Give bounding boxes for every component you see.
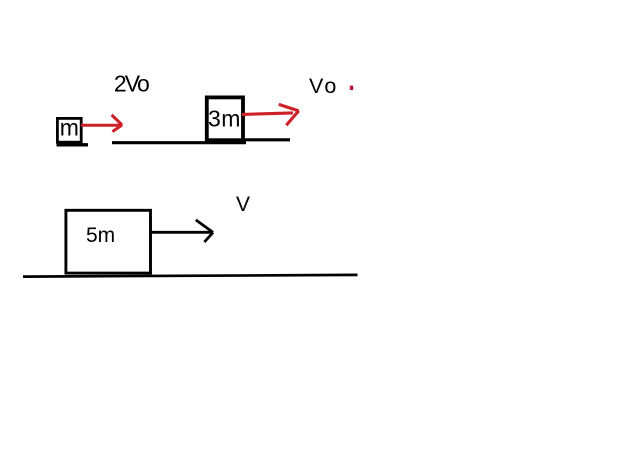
svg-text:Vo: Vo xyxy=(309,74,339,98)
svg-text:V: V xyxy=(236,193,250,216)
svg-text:2Vo: 2Vo xyxy=(114,71,149,97)
velocity arrow of block 5m (black) xyxy=(151,220,213,242)
red dot marker xyxy=(350,86,353,90)
velocity arrow of block m (red) xyxy=(81,115,122,132)
svg-text:5m: 5m xyxy=(86,224,115,247)
svg-text:3m: 3m xyxy=(208,105,241,131)
block m xyxy=(57,114,81,142)
main upper ground line xyxy=(112,141,246,144)
velocity arrow of block 3m (red) xyxy=(242,104,299,125)
block 5m xyxy=(66,210,151,273)
block 3m xyxy=(207,97,243,140)
upper ground line right segment xyxy=(244,138,290,141)
ground segment under block m xyxy=(57,143,89,146)
lower ground line xyxy=(23,275,358,277)
svg-text:m: m xyxy=(60,114,79,140)
